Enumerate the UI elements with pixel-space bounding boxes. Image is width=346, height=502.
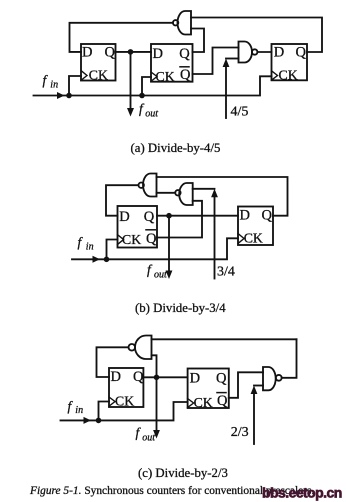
node dot Q1b [166, 213, 172, 219]
svg-text:Q: Q [216, 371, 227, 387]
svg-text:bbs.eetop.cn: bbs.eetop.cn [262, 485, 342, 501]
svg-text:in: in [75, 405, 83, 416]
node dot Q1c [154, 375, 160, 381]
arrow fin (b) [93, 256, 101, 263]
nand gate G1b (left-facing) [139, 174, 157, 197]
svg-text:(c) Divide-by-2/3: (c) Divide-by-2/3 [138, 466, 228, 480]
svg-text:3/4: 3/4 [217, 264, 235, 279]
wire top feedback to G1c top input [152, 338, 297, 340]
svg-text:D: D [119, 209, 129, 225]
svg-text:(a) Divide-by-4/5: (a) Divide-by-4/5 [131, 141, 221, 155]
label fin (c) [68, 399, 84, 417]
nand gate G2c (right-facing) [263, 367, 282, 390]
svg-text:Q: Q [296, 45, 307, 61]
svg-text:out: out [154, 270, 167, 281]
wire 3/4 control with up arrow to G2b top input [193, 189, 218, 279]
wire G1c output to FF1c D [97, 347, 129, 377]
svg-text:4/5: 4/5 [231, 105, 249, 120]
svg-text:D: D [153, 46, 163, 62]
svg-text:(b) Divide-by-3/4: (b) Divide-by-3/4 [135, 301, 226, 315]
svg-text:f: f [68, 399, 74, 414]
svg-text:2/3: 2/3 [231, 425, 249, 440]
flip-flop FF1c [109, 368, 144, 409]
svg-text:D: D [190, 371, 200, 387]
nand gate G2a (right-facing, middle) [239, 42, 258, 63]
svg-text:f: f [43, 73, 49, 88]
nand gate G2b (left-facing) [175, 183, 193, 205]
svg-text:D: D [82, 45, 92, 61]
svg-text:f: f [139, 101, 145, 116]
node dot CK1a on bus [66, 93, 72, 99]
wire Q1a down to fout (a) [130, 52, 132, 110]
node dot Q1a [128, 49, 134, 55]
label fin (a) [43, 73, 59, 91]
svg-text:Q: Q [180, 67, 191, 83]
wire Q2b feedback to G1b top input [157, 177, 288, 216]
flip-flop FF2c [188, 369, 229, 411]
wire G2b output to G1b bottom input [157, 192, 176, 194]
wire G1a output to FF1a D [70, 23, 173, 52]
wire bus to FF1c CK [99, 402, 110, 421]
svg-text:CK: CK [279, 67, 298, 82]
svg-text:Q: Q [133, 369, 144, 385]
wire Q1c to FF2c D [143, 376, 187, 378]
svg-text:D: D [240, 208, 250, 224]
wire Q1c down to fout (c) [156, 377, 158, 431]
svg-text:CK: CK [122, 232, 141, 247]
svg-text:CK: CK [115, 394, 134, 409]
wire 4/5 control input with up arrow [223, 59, 239, 119]
wire Q1a to FF2a D [116, 51, 152, 53]
wire G2c output up to top feedback [282, 339, 297, 378]
svg-text:CK: CK [156, 69, 175, 84]
wire G1c bottom input to Q1c node [152, 355, 157, 377]
wire Q2c-bar to G2c top input [229, 372, 263, 398]
wire Q1b-bar to G2b bottom input [157, 201, 202, 238]
wire G2a output to FF3a D [257, 51, 271, 53]
svg-text:Q: Q [146, 231, 157, 247]
svg-text:D: D [274, 45, 284, 61]
wire G1b output to FF1b D [106, 185, 139, 216]
wire top feedback Q3a to G1a top input [191, 18, 322, 53]
nand gate G1a (left-facing, top) [173, 11, 191, 35]
wire fin bus (b) [72, 238, 238, 259]
flip-flop FF1a [81, 44, 116, 83]
svg-text:CK: CK [194, 395, 213, 410]
wire bus to FF2a CK [142, 77, 151, 96]
node dot CK2a on bus [139, 93, 145, 99]
label fout (b) [147, 262, 167, 281]
wire Q1b down to fout (b) [168, 216, 170, 272]
svg-text:out: out [142, 433, 155, 444]
node dot CK1c on bus [96, 418, 102, 424]
wire bus to FF1a CK [69, 76, 81, 96]
node dot CK1b on bus [104, 257, 110, 263]
svg-text:f: f [78, 235, 84, 250]
arrow fin (a) [57, 92, 65, 99]
svg-text:Q: Q [179, 46, 190, 62]
flip-flop FF3a [272, 44, 308, 82]
wire Q2a to G1a bottom input [191, 29, 204, 53]
flip-flop FF2b [238, 207, 273, 246]
nand gate G1c (left-facing, top) [129, 336, 152, 360]
svg-text:Q: Q [262, 208, 273, 224]
wire fin bus (c) [61, 402, 188, 420]
wire 2/3 control with up arrow [251, 386, 263, 445]
svg-text:CK: CK [89, 68, 108, 83]
flip-flop FF1b [118, 206, 158, 248]
svg-text:Q: Q [217, 393, 228, 409]
label fin (b) [78, 235, 94, 253]
wire Q1b to FF2b D [157, 215, 238, 217]
label fout (c) [136, 425, 156, 444]
svg-text:out: out [145, 109, 158, 120]
flip-flop FF2a [151, 44, 193, 84]
wire fin bus (a) [34, 76, 272, 95]
svg-text:D: D [111, 369, 121, 385]
wire bus to FF1b CK [107, 240, 118, 260]
svg-text:f: f [147, 262, 153, 277]
svg-text:Q: Q [144, 209, 155, 225]
label fout (a) [139, 101, 158, 120]
svg-text:in: in [50, 80, 58, 91]
svg-text:f: f [136, 425, 142, 440]
figure caption [29, 485, 314, 497]
svg-text:Q: Q [105, 45, 116, 61]
svg-text:in: in [86, 242, 94, 253]
wire Q2a-bar to G2a top input [193, 48, 239, 75]
svg-text:CK: CK [244, 231, 263, 246]
arrow fin (c) [84, 417, 92, 424]
